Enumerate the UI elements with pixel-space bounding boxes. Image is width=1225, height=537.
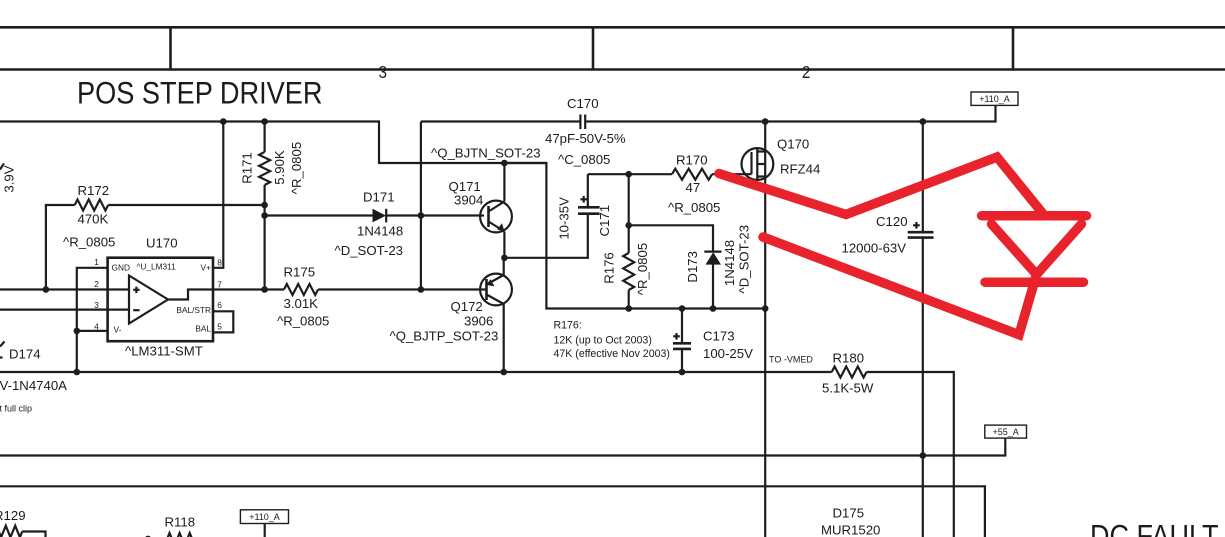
wire vertical x=421 <box>420 122 422 290</box>
junction dot 12 <box>625 305 632 312</box>
svg-text:470K: 470K <box>78 212 109 227</box>
junction dot 22 <box>679 369 686 376</box>
svg-text:C171: C171 <box>597 205 612 237</box>
resistor R172 <box>46 200 265 290</box>
resistor R129 <box>0 526 46 537</box>
junction dot 10 <box>625 171 632 178</box>
svg-text:RFZ44: RFZ44 <box>780 162 820 177</box>
zener D174 fragment <box>0 342 5 358</box>
wire R175 to Q172 base <box>318 288 487 290</box>
red annotation diode cathode bar <box>985 277 1084 287</box>
diode D171 <box>373 209 387 223</box>
wire emitter node to C171 bottom <box>504 214 587 258</box>
svg-text:POS STEP DRIVER: POS STEP DRIVER <box>77 75 323 111</box>
capacitor C170 <box>580 115 585 130</box>
svg-text:3.01K: 3.01K <box>284 296 319 311</box>
net label +110_A bottom <box>240 510 288 537</box>
svg-text:47K (effective Nov 2003): 47K (effective Nov 2003) <box>554 348 670 360</box>
wire pin7 to Q172 base <box>213 288 284 290</box>
svg-text:10-35V: 10-35V <box>556 197 571 240</box>
junction dot 5 <box>261 202 268 209</box>
junction dot 16 <box>43 286 50 293</box>
svg-text:47pF-50V-5%: 47pF-50V-5% <box>545 131 626 146</box>
junction dot 23 <box>920 452 927 459</box>
wire top-left rail <box>0 122 546 164</box>
svg-text:R118: R118 <box>165 515 196 530</box>
junction dot 7 <box>418 212 425 219</box>
svg-text:t full clip: t full clip <box>0 404 32 414</box>
svg-text:^D_SOT-23: ^D_SOT-23 <box>736 225 751 294</box>
svg-text:+110_A: +110_A <box>249 512 280 522</box>
wire gate node down <box>628 174 630 253</box>
junction dot 13 <box>679 305 686 312</box>
junction dot 18 <box>418 286 425 293</box>
junction dot 17 <box>261 286 268 293</box>
svg-text:GND: GND <box>112 263 130 273</box>
svg-text:D175: D175 <box>833 506 865 521</box>
svg-text:U170: U170 <box>146 236 178 251</box>
capacitor C171 <box>578 174 600 214</box>
junction dot 2 <box>261 118 268 125</box>
wire collector node to C171 branch <box>504 163 765 309</box>
border line top <box>0 26 1225 29</box>
resistor R175 <box>284 284 318 295</box>
wire pin 4 V- stub <box>77 330 108 332</box>
svg-text:+55_A: +55_A <box>992 427 1018 437</box>
svg-text:^R_0805: ^R_0805 <box>63 235 115 250</box>
border divider 3 <box>1012 27 1015 69</box>
wire Q171 emitter down <box>503 232 505 258</box>
svg-text:R129: R129 <box>0 508 26 523</box>
wire D171 to Q171 base <box>386 214 484 216</box>
svg-text:^Q_BJTN_SOT-23: ^Q_BJTN_SOT-23 <box>431 146 541 161</box>
svg-text:R180: R180 <box>833 351 865 366</box>
wire pin 2 input <box>0 288 129 290</box>
svg-text:3904: 3904 <box>454 193 483 208</box>
red annotation arrow bottom <box>763 237 1037 335</box>
svg-text:R172: R172 <box>78 183 110 198</box>
capacitor C173 <box>673 309 691 373</box>
svg-text:^R_0805: ^R_0805 <box>668 200 720 215</box>
wire Q170 drain-source vertical <box>764 122 766 537</box>
op-amp U170 box <box>108 258 213 342</box>
border divider 2 <box>592 27 595 69</box>
wire Q171 collector <box>503 163 505 202</box>
svg-text:D174: D174 <box>9 347 41 362</box>
svg-text:47: 47 <box>686 180 701 195</box>
svg-text:1: 1 <box>94 257 99 267</box>
wire Q172 emitter up <box>503 258 505 275</box>
svg-text:1N4148: 1N4148 <box>722 240 737 286</box>
svg-text:+110_A: +110_A <box>979 94 1010 104</box>
diode D173 <box>704 252 721 265</box>
svg-text:12000-63V: 12000-63V <box>842 241 907 256</box>
junction dot 15 <box>762 305 769 312</box>
wire D173 bottom <box>712 264 714 308</box>
svg-text:3906: 3906 <box>464 314 493 329</box>
wire rail y486 <box>0 486 985 537</box>
wire top-right rail left of C170 <box>421 120 580 122</box>
resistor R171 <box>259 122 270 290</box>
transistor Q172 <box>480 274 512 306</box>
resistor R118 <box>145 533 198 537</box>
svg-text:2: 2 <box>802 62 811 82</box>
border line bottom <box>0 68 1225 71</box>
capacitor C120 <box>908 122 934 537</box>
junction dot 20 <box>74 369 81 376</box>
svg-text:^U_LM311: ^U_LM311 <box>137 262 177 272</box>
svg-text:R175: R175 <box>284 265 316 280</box>
resistor R176 <box>623 253 634 290</box>
svg-text:C173: C173 <box>703 329 735 344</box>
svg-text:BAL: BAL <box>195 324 211 334</box>
transistor Q171 <box>480 201 512 233</box>
wire R170 to Q170 gate <box>712 173 752 175</box>
svg-text:7: 7 <box>217 280 222 290</box>
net label +110_A top <box>971 92 1018 105</box>
svg-text:R171: R171 <box>239 152 254 184</box>
wire U170 output step to pin 7 <box>168 290 213 300</box>
svg-text:5: 5 <box>217 322 222 332</box>
svg-text:^Q_BJTP_SOT-23: ^Q_BJTP_SOT-23 <box>390 329 499 344</box>
wire Q172 collector down <box>503 304 505 372</box>
junction dot 21 <box>500 369 507 376</box>
red annotation arrow top <box>719 157 1044 215</box>
wire pin 1 GND stub <box>77 268 108 372</box>
wire BAL/STR to BAL loop <box>213 311 233 332</box>
wire D171 left <box>265 214 373 216</box>
wire R176 bottom <box>628 290 630 309</box>
svg-text:D173: D173 <box>685 251 700 283</box>
zener 3.9V fragment <box>0 164 4 170</box>
svg-text:12K (up to Oct 2003): 12K (up to Oct 2003) <box>554 335 652 347</box>
red annotation diode triangle <box>992 224 1082 275</box>
svg-text:D171: D171 <box>363 190 395 205</box>
svg-text:^D_SOT-23: ^D_SOT-23 <box>335 243 404 258</box>
wire top-right rail right of C170 <box>586 106 996 122</box>
border divider 1 <box>169 27 172 69</box>
svg-text:TO -VMED: TO -VMED <box>769 355 813 365</box>
junction dot 11 <box>625 222 632 229</box>
svg-text:^C_0805: ^C_0805 <box>558 152 610 167</box>
svg-text:5.1K-5W: 5.1K-5W <box>822 381 874 396</box>
op-amp U170 triangle <box>129 276 168 324</box>
junction dot 14 <box>710 305 717 312</box>
svg-text:R176: R176 <box>601 252 616 284</box>
svg-text:100-25V: 100-25V <box>703 346 753 361</box>
wire R180 right <box>867 372 954 537</box>
red annotation diode anode bar <box>982 211 1087 221</box>
wire C171 top to R170 <box>588 173 672 175</box>
wire pin 3 input <box>0 309 129 311</box>
svg-text:^R_0805: ^R_0805 <box>635 243 650 295</box>
junction dot 1 <box>220 118 227 125</box>
svg-text:V-1N4740A: V-1N4740A <box>0 378 67 393</box>
resistor R170 <box>672 169 712 180</box>
svg-text:BAL/STR: BAL/STR <box>176 305 211 315</box>
net label +55_A <box>985 425 1027 438</box>
svg-text:R176:: R176: <box>554 320 582 332</box>
svg-text:8: 8 <box>217 258 222 268</box>
resistor R180 <box>832 367 867 378</box>
junction dot 4 <box>920 118 927 125</box>
junction dot 3 <box>762 118 769 125</box>
svg-text:1N4148: 1N4148 <box>357 224 403 239</box>
transistor Q170 MOSFET <box>742 148 774 180</box>
wire V+ pin 8 to top rail <box>213 122 223 268</box>
svg-text:6: 6 <box>217 300 222 310</box>
wire rail y455 <box>0 438 1005 455</box>
junction dot 19 <box>74 328 81 335</box>
svg-text:C170: C170 <box>567 96 599 111</box>
svg-text:MUR1520: MUR1520 <box>821 523 880 537</box>
svg-text:V-: V- <box>114 325 122 335</box>
svg-text:2: 2 <box>94 279 99 289</box>
svg-text:^R_0805: ^R_0805 <box>277 314 329 329</box>
svg-text:Q170: Q170 <box>777 137 809 152</box>
svg-text:Q172: Q172 <box>451 299 483 314</box>
svg-text:DC FAULT: DC FAULT <box>1090 518 1219 537</box>
svg-text:5.90K: 5.90K <box>272 150 287 185</box>
svg-text:C120: C120 <box>876 214 908 229</box>
junction dot 9 <box>501 254 508 261</box>
wire ground rail y372 <box>0 371 832 373</box>
junction dot 6 <box>261 212 268 219</box>
svg-text:R170: R170 <box>676 153 708 168</box>
svg-text:3.9V: 3.9V <box>1 165 16 192</box>
svg-text:3: 3 <box>379 62 388 82</box>
svg-text:^R_0805: ^R_0805 <box>289 142 304 194</box>
svg-text:^LM311-SMT: ^LM311-SMT <box>125 344 203 359</box>
junction dot 8 <box>501 160 508 167</box>
svg-text:V+: V+ <box>201 263 212 273</box>
wire R176 node to D173 <box>629 225 713 251</box>
